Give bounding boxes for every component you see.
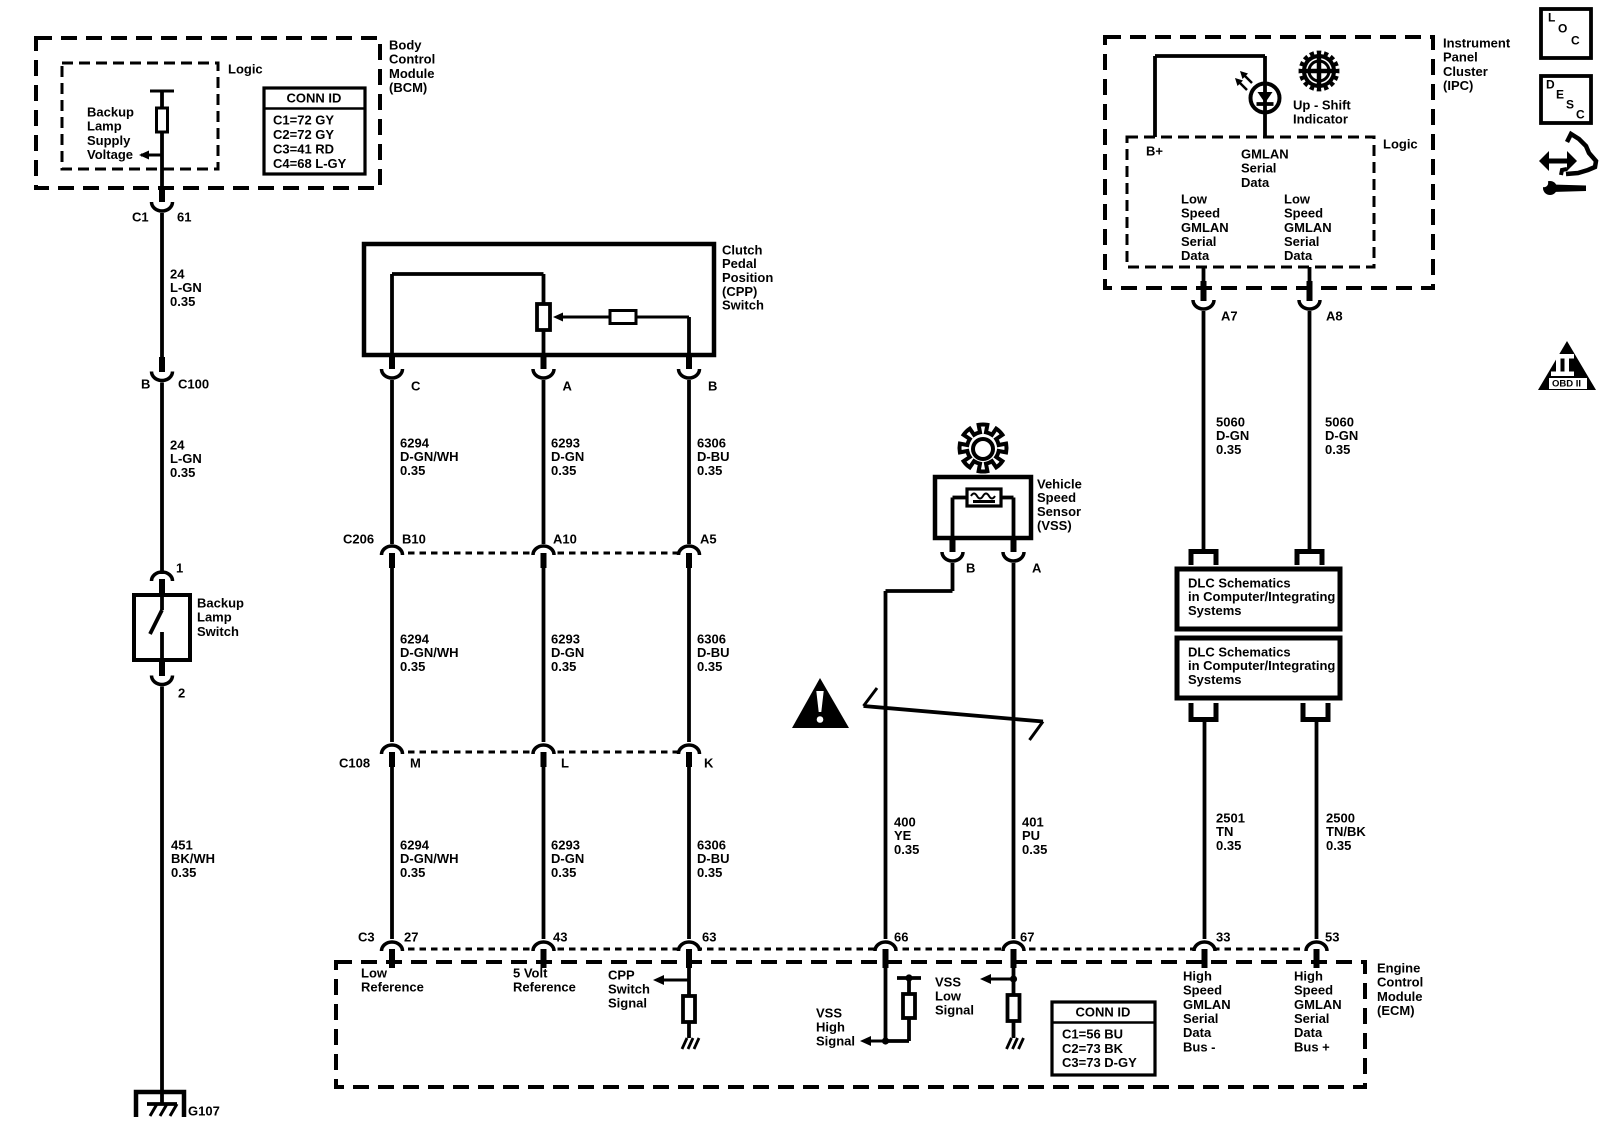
svg-text:K: K: [704, 755, 714, 770]
svg-text:Pedal: Pedal: [722, 256, 757, 271]
svg-text:C3=73 D-GY: C3=73 D-GY: [1062, 1055, 1137, 1070]
svg-text:53: 53: [1325, 929, 1339, 944]
svg-text:5060: 5060: [1325, 414, 1354, 429]
svg-text:5 Volt: 5 Volt: [513, 965, 548, 980]
svg-text:D: D: [1546, 78, 1555, 92]
svg-text:Module: Module: [1377, 989, 1423, 1004]
svg-text:Instrument: Instrument: [1443, 35, 1511, 50]
svg-text:(BCM): (BCM): [389, 80, 427, 95]
svg-text:C108: C108: [339, 755, 370, 770]
svg-text:C: C: [1576, 108, 1585, 122]
svg-text:D-BU: D-BU: [697, 851, 730, 866]
svg-text:2500: 2500: [1326, 810, 1355, 825]
svg-text:C2=73 BK: C2=73 BK: [1062, 1041, 1124, 1056]
svg-text:Panel: Panel: [1443, 50, 1478, 65]
svg-text:Low: Low: [1284, 191, 1311, 206]
svg-text:C2=72 GY: C2=72 GY: [273, 127, 334, 142]
svg-text:GMLAN: GMLAN: [1181, 220, 1229, 235]
svg-text:(VSS): (VSS): [1037, 518, 1072, 533]
svg-text:Backup: Backup: [87, 104, 134, 119]
svg-text:Systems: Systems: [1188, 672, 1241, 687]
svg-text:Data: Data: [1294, 1025, 1323, 1040]
svg-text:0.35: 0.35: [551, 865, 576, 880]
svg-text:D-GN: D-GN: [1325, 428, 1358, 443]
svg-text:in Computer/Integrating: in Computer/Integrating: [1188, 589, 1335, 604]
svg-text:Serial: Serial: [1241, 161, 1276, 176]
svg-text:CPP: CPP: [608, 967, 635, 982]
svg-text:B: B: [141, 376, 150, 391]
svg-text:C1=56 BU: C1=56 BU: [1062, 1026, 1123, 1041]
svg-text:0.35: 0.35: [551, 463, 576, 478]
svg-text:63: 63: [702, 929, 716, 944]
svg-text:C3: C3: [358, 929, 375, 944]
svg-text:High: High: [816, 1019, 845, 1034]
svg-text:G107: G107: [188, 1103, 220, 1118]
svg-text:0.35: 0.35: [894, 842, 919, 857]
svg-text:0.35: 0.35: [1022, 842, 1047, 857]
svg-text:Lamp: Lamp: [87, 119, 122, 134]
svg-text:DLC Schematics: DLC Schematics: [1188, 575, 1291, 590]
svg-text:Data: Data: [1183, 1025, 1212, 1040]
svg-text:OBD II: OBD II: [1552, 378, 1581, 389]
svg-text:0.35: 0.35: [1326, 838, 1351, 853]
svg-text:0.35: 0.35: [551, 659, 576, 674]
svg-text:O: O: [1558, 22, 1567, 36]
svg-text:Serial: Serial: [1181, 234, 1216, 249]
svg-text:Speed: Speed: [1284, 206, 1323, 221]
svg-text:TN: TN: [1216, 824, 1233, 839]
svg-text:D-GN/WH: D-GN/WH: [400, 449, 459, 464]
svg-text:Vehicle: Vehicle: [1037, 476, 1082, 491]
svg-text:66: 66: [894, 929, 908, 944]
svg-text:M: M: [410, 755, 421, 770]
svg-text:Serial: Serial: [1284, 234, 1319, 249]
svg-text:27: 27: [404, 929, 418, 944]
svg-text:Logic: Logic: [1383, 136, 1418, 151]
svg-text:Speed: Speed: [1294, 983, 1333, 998]
svg-text:0.35: 0.35: [697, 865, 722, 880]
svg-text:Cluster: Cluster: [1443, 64, 1488, 79]
svg-text:C3=41 RD: C3=41 RD: [273, 142, 334, 157]
svg-text:6293: 6293: [551, 837, 580, 852]
svg-text:Signal: Signal: [608, 995, 647, 1010]
svg-text:D-GN: D-GN: [1216, 428, 1249, 443]
svg-text:D-GN: D-GN: [551, 645, 584, 660]
svg-text:Data: Data: [1181, 248, 1210, 263]
svg-text:A7: A7: [1221, 308, 1238, 323]
svg-text:D-GN/WH: D-GN/WH: [400, 645, 459, 660]
svg-text:VSS: VSS: [816, 1005, 842, 1020]
svg-text:Low: Low: [1181, 191, 1208, 206]
svg-text:0.35: 0.35: [171, 865, 196, 880]
svg-text:Switch: Switch: [722, 298, 764, 313]
svg-text:D-BU: D-BU: [697, 449, 730, 464]
svg-text:Module: Module: [389, 66, 435, 81]
svg-text:0.35: 0.35: [400, 463, 425, 478]
svg-text:CONN ID: CONN ID: [1076, 1004, 1131, 1019]
svg-text:CONN ID: CONN ID: [287, 90, 342, 105]
svg-text:24: 24: [170, 266, 185, 281]
svg-text:Serial: Serial: [1294, 1011, 1329, 1026]
svg-text:L: L: [1548, 11, 1555, 25]
svg-text:0.35: 0.35: [170, 294, 195, 309]
svg-text:Data: Data: [1241, 175, 1270, 190]
svg-text:(ECM): (ECM): [1377, 1003, 1415, 1018]
svg-text:67: 67: [1020, 929, 1034, 944]
svg-text:Signal: Signal: [935, 1002, 974, 1017]
svg-text:in Computer/Integrating: in Computer/Integrating: [1188, 658, 1335, 673]
svg-text:D-BU: D-BU: [697, 645, 730, 660]
svg-text:L-GN: L-GN: [170, 280, 202, 295]
svg-text:GMLAN: GMLAN: [1284, 220, 1332, 235]
svg-text:A8: A8: [1326, 308, 1343, 323]
svg-text:Signal: Signal: [816, 1033, 855, 1048]
svg-text:Lamp: Lamp: [197, 610, 232, 625]
svg-text:0.35: 0.35: [400, 659, 425, 674]
svg-text:PU: PU: [1022, 828, 1040, 843]
svg-text:Control: Control: [1377, 975, 1423, 990]
svg-text:D-GN: D-GN: [551, 851, 584, 866]
svg-text:Engine: Engine: [1377, 960, 1420, 975]
svg-text:Supply: Supply: [87, 133, 131, 148]
svg-text:Voltage: Voltage: [87, 147, 133, 162]
svg-text:Switch: Switch: [608, 981, 650, 996]
svg-text:VSS: VSS: [935, 974, 961, 989]
svg-text:0.35: 0.35: [400, 865, 425, 880]
svg-text:L-GN: L-GN: [170, 451, 202, 466]
svg-text:D-GN: D-GN: [551, 449, 584, 464]
svg-text:24: 24: [170, 437, 185, 452]
svg-text:TN/BK: TN/BK: [1326, 824, 1366, 839]
svg-text:Position: Position: [722, 270, 773, 285]
svg-text:0.35: 0.35: [1325, 442, 1350, 457]
svg-text:A10: A10: [553, 531, 577, 546]
svg-text:5060: 5060: [1216, 414, 1245, 429]
svg-text:GMLAN: GMLAN: [1294, 997, 1342, 1012]
svg-text:6306: 6306: [697, 631, 726, 646]
svg-text:C: C: [411, 378, 421, 393]
svg-text:Serial: Serial: [1183, 1011, 1218, 1026]
svg-text:6293: 6293: [551, 435, 580, 450]
svg-text:0.35: 0.35: [170, 465, 195, 480]
svg-text:6293: 6293: [551, 631, 580, 646]
svg-text:0.35: 0.35: [1216, 838, 1241, 853]
svg-text:0.35: 0.35: [1216, 442, 1241, 457]
svg-text:Bus -: Bus -: [1183, 1039, 1216, 1054]
svg-text:2501: 2501: [1216, 810, 1245, 825]
svg-text:(CPP): (CPP): [722, 284, 757, 299]
svg-text:1: 1: [176, 560, 183, 575]
svg-text:400: 400: [894, 814, 916, 829]
svg-text:GMLAN: GMLAN: [1241, 146, 1289, 161]
svg-text:6294: 6294: [400, 435, 430, 450]
svg-text:Reference: Reference: [361, 979, 424, 994]
svg-text:Up - Shift: Up - Shift: [1293, 97, 1351, 112]
svg-text:C1: C1: [132, 209, 149, 224]
svg-text:Logic: Logic: [228, 61, 263, 76]
svg-text:Reference: Reference: [513, 979, 576, 994]
svg-text:C206: C206: [343, 531, 374, 546]
svg-text:(IPC): (IPC): [1443, 78, 1473, 93]
svg-text:0.35: 0.35: [697, 659, 722, 674]
svg-text:Bus +: Bus +: [1294, 1039, 1330, 1054]
svg-text:C: C: [1571, 34, 1580, 48]
svg-text:6294: 6294: [400, 631, 430, 646]
svg-text:B10: B10: [402, 531, 426, 546]
svg-text:A5: A5: [700, 531, 717, 546]
svg-text:Switch: Switch: [197, 624, 239, 639]
svg-text:2: 2: [178, 685, 185, 700]
svg-text:A: A: [563, 378, 573, 393]
svg-text:DLC Schematics: DLC Schematics: [1188, 644, 1291, 659]
svg-text:High: High: [1294, 968, 1323, 983]
svg-text:GMLAN: GMLAN: [1183, 997, 1231, 1012]
svg-text:D-GN/WH: D-GN/WH: [400, 851, 459, 866]
svg-text:B+: B+: [1146, 143, 1163, 158]
svg-text:S: S: [1566, 98, 1574, 112]
svg-text:451: 451: [171, 837, 193, 852]
svg-text:43: 43: [553, 929, 567, 944]
svg-text:Systems: Systems: [1188, 603, 1241, 618]
svg-text:C1=72 GY: C1=72 GY: [273, 112, 334, 127]
svg-text:0.35: 0.35: [697, 463, 722, 478]
svg-text:High: High: [1183, 968, 1212, 983]
svg-text:C4=68 L-GY: C4=68 L-GY: [273, 156, 347, 171]
svg-text:Clutch: Clutch: [722, 242, 763, 257]
svg-text:Indicator: Indicator: [1293, 112, 1348, 127]
svg-text:BK/WH: BK/WH: [171, 851, 215, 866]
svg-text:Speed: Speed: [1183, 983, 1222, 998]
svg-text:Body: Body: [389, 37, 422, 52]
svg-text:YE: YE: [894, 828, 912, 843]
svg-text:Backup: Backup: [197, 595, 244, 610]
svg-text:Data: Data: [1284, 248, 1313, 263]
svg-text:Sensor: Sensor: [1037, 504, 1081, 519]
svg-text:33: 33: [1216, 929, 1230, 944]
svg-text:6306: 6306: [697, 435, 726, 450]
svg-text:C100: C100: [178, 376, 209, 391]
svg-text:L: L: [561, 755, 569, 770]
svg-text:Low: Low: [935, 988, 962, 1003]
svg-text:Speed: Speed: [1037, 490, 1076, 505]
svg-text:Control: Control: [389, 52, 435, 67]
svg-text:E: E: [1556, 88, 1564, 102]
svg-text:B: B: [966, 560, 975, 575]
svg-text:A: A: [1032, 560, 1042, 575]
svg-text:6306: 6306: [697, 837, 726, 852]
svg-text:61: 61: [177, 209, 191, 224]
svg-text:6294: 6294: [400, 837, 430, 852]
svg-text:B: B: [708, 378, 717, 393]
svg-text:401: 401: [1022, 814, 1044, 829]
svg-text:Speed: Speed: [1181, 206, 1220, 221]
svg-text:Low: Low: [361, 965, 388, 980]
